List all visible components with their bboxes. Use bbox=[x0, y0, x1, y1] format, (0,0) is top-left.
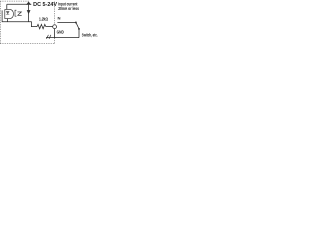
svg-text:Switch, etc.: Switch, etc. bbox=[82, 32, 98, 37]
svg-text:GND: GND bbox=[57, 30, 64, 35]
svg-text:1.2kΩ: 1.2kΩ bbox=[39, 16, 48, 21]
svg-text:N: N bbox=[58, 16, 61, 20]
svg-text:DC 5-24V: DC 5-24V bbox=[33, 2, 58, 8]
svg-text:20mA or less: 20mA or less bbox=[58, 6, 79, 11]
